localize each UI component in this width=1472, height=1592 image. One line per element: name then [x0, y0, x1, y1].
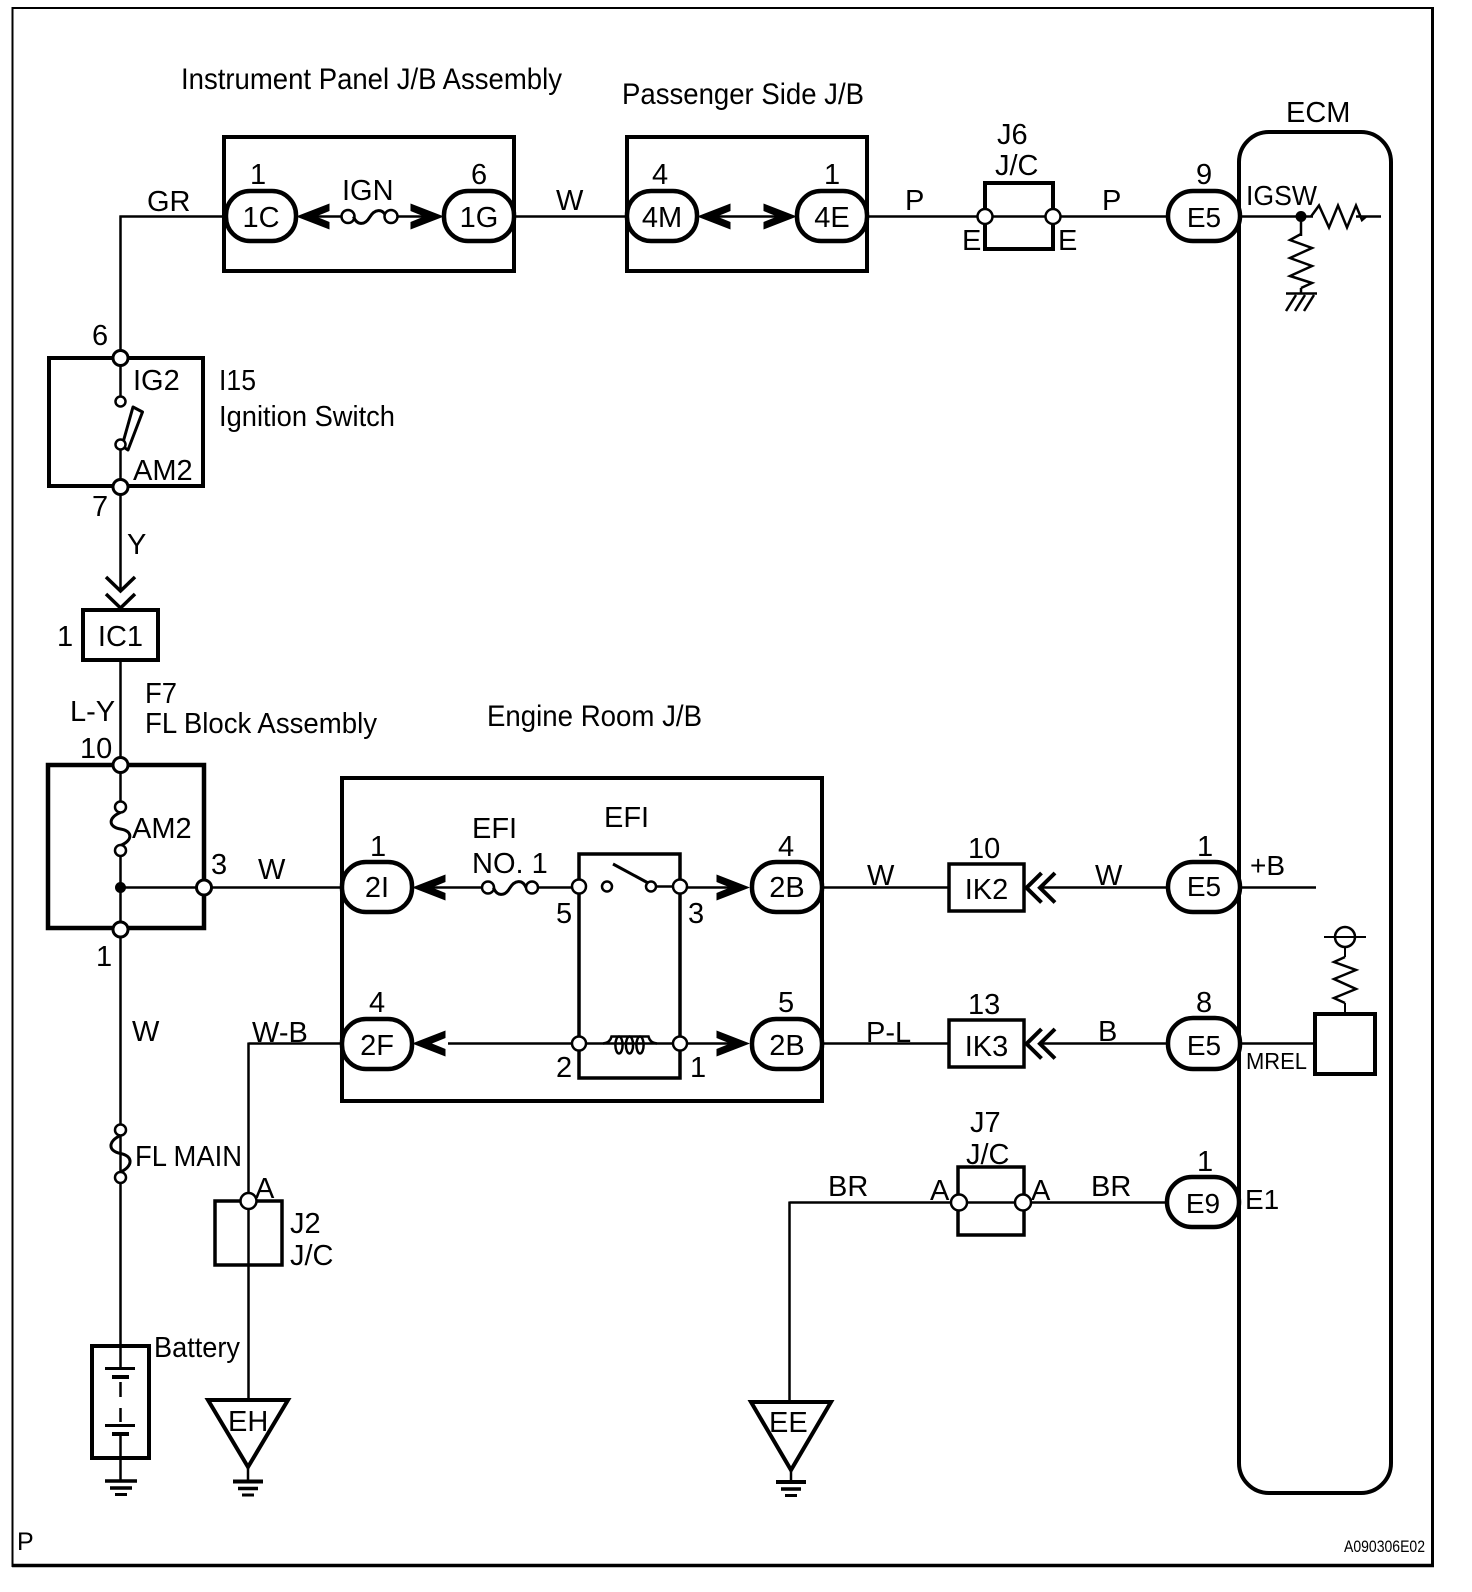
wire relay to arrow [687, 1042, 731, 1045]
svg-text:J2: J2 [290, 1208, 321, 1240]
Engine Room J/B box [342, 778, 822, 1101]
connector arrow (right, before 2B top) [717, 875, 751, 901]
svg-text:NO. 1: NO. 1 [472, 848, 548, 880]
svg-text:AM2: AM2 [132, 813, 192, 845]
svg-text:2: 2 [556, 1052, 572, 1084]
connector 2B (top) [752, 862, 822, 912]
relay switch contact right [646, 882, 656, 892]
wire L-Y: IC1 to FL block [119, 660, 122, 765]
junction node on IGSW wire [1296, 211, 1307, 222]
svg-text:E5: E5 [1187, 1030, 1221, 1061]
relay switch blade [613, 864, 650, 884]
wire +B inside ECM [1240, 886, 1316, 889]
battery box [92, 1346, 149, 1458]
wire fuse to junction [119, 856, 122, 929]
svg-text:1: 1 [1197, 1146, 1213, 1178]
svg-text:13: 13 [968, 989, 1000, 1021]
connector 2F [342, 1019, 412, 1069]
svg-text:P: P [17, 1528, 34, 1556]
svg-text:5: 5 [556, 898, 572, 930]
svg-text:EFI: EFI [472, 813, 517, 845]
relay pin 1 terminal [673, 1037, 687, 1051]
svg-text:L-Y: L-Y [70, 696, 115, 728]
wire fuse to relay pin 5 [538, 886, 580, 889]
svg-text:EFI: EFI [604, 802, 649, 834]
svg-text:IG2: IG2 [133, 365, 180, 397]
connector arrow (left, after 2F) [412, 1031, 446, 1057]
svg-text:J/C: J/C [290, 1240, 334, 1272]
terminal circle pin 1 (FL block bottom) [113, 922, 128, 937]
svg-text:1: 1 [1197, 831, 1213, 863]
switch contact upper [116, 397, 126, 407]
svg-text:MREL: MREL [1246, 1048, 1307, 1074]
svg-text:5: 5 [778, 987, 794, 1019]
wire junction to pin 3 [121, 886, 205, 889]
svg-text:IK2: IK2 [965, 874, 1009, 906]
svg-text:7: 7 [92, 491, 108, 523]
resistor (vertical, to B+) [1334, 957, 1356, 1003]
inline connector chevrons (double V) [106, 577, 135, 608]
svg-text:6: 6 [92, 320, 108, 352]
svg-text:8: 8 [1196, 987, 1212, 1019]
inline chevrons after IK3 [1027, 1029, 1056, 1059]
svg-text:BR: BR [1091, 1171, 1131, 1203]
ECM box [1239, 132, 1391, 1493]
svg-text:I15: I15 [219, 365, 256, 397]
connector 2I [342, 862, 412, 912]
junction connector J7 J/C box [951, 1167, 1031, 1235]
svg-text:A090306E02: A090306E02 [1344, 1537, 1425, 1556]
resistor (horizontal, IGSW pull) [1311, 206, 1381, 228]
svg-text:J7: J7 [970, 1107, 1001, 1139]
terminal circle node (B+) [1324, 927, 1366, 947]
terminal circle pin 3 [197, 880, 212, 895]
wire P-L: 2B bottom to IK3 [822, 1042, 949, 1045]
junction connector J6 J/C [978, 119, 1061, 249]
connector E9 [1167, 1177, 1239, 1227]
svg-text:3: 3 [211, 849, 227, 881]
wire W-B to 2F [249, 1043, 345, 1195]
svg-text:1: 1 [690, 1052, 706, 1084]
wire between arrows [717, 215, 777, 218]
connector arrow (right, before 2B bottom) [717, 1031, 751, 1057]
svg-text:1: 1 [824, 159, 840, 191]
connector arrow (right, before 4E) [764, 204, 798, 230]
svg-text:E: E [1058, 225, 1077, 257]
connector IK3 box [949, 1020, 1024, 1067]
svg-text:+B: +B [1250, 850, 1285, 881]
svg-text:4E: 4E [814, 202, 849, 234]
resistor (vertical, to ground) [1290, 217, 1312, 295]
connector 1G [444, 191, 514, 241]
Passenger Side J/B box [627, 137, 867, 271]
svg-text:1: 1 [96, 941, 112, 973]
svg-text:Ignition Switch: Ignition Switch [219, 401, 395, 433]
svg-text:E9: E9 [1186, 1188, 1220, 1219]
svg-text:W: W [867, 860, 895, 892]
wire P: J6 to E5 [1060, 215, 1169, 218]
svg-text:IGSW: IGSW [1246, 180, 1318, 211]
connector IC1 box [83, 610, 158, 660]
wire AM2 contact to pin 7 [119, 450, 122, 488]
wire arrow to relay pin 2 [448, 1042, 580, 1045]
svg-text:GR: GR [147, 186, 191, 218]
connector arrow (left, after 4M) [697, 204, 731, 230]
wire B: chevrons to E5 pin 8 [1041, 1042, 1169, 1045]
component I15 Ignition Switch box [49, 358, 203, 486]
svg-text:W: W [1095, 860, 1123, 892]
svg-text:4: 4 [369, 987, 385, 1019]
main relay driver block (inside ECM) [1315, 1014, 1375, 1074]
wire W: 1G to 4M [514, 215, 627, 218]
svg-text:ECM: ECM [1286, 97, 1350, 129]
wire relay to arrow [687, 886, 731, 889]
svg-text:P-L: P-L [866, 1017, 911, 1049]
svg-text:4: 4 [652, 159, 668, 191]
svg-text:1: 1 [370, 831, 386, 863]
wire pin10 to fuse AM2 [119, 772, 122, 802]
svg-text:Y: Y [127, 529, 146, 561]
Instrument Panel J/B box [224, 137, 514, 271]
svg-text:9: 9 [1196, 159, 1212, 191]
svg-text:A: A [930, 1175, 950, 1207]
junction node [115, 882, 126, 893]
svg-text:E5: E5 [1187, 871, 1221, 902]
relay switch contact left [602, 882, 612, 892]
svg-text:E5: E5 [1187, 202, 1221, 233]
wire IGSW inside ECM [1240, 215, 1313, 218]
svg-text:E: E [962, 225, 981, 257]
wire block to resistor [1344, 1003, 1346, 1014]
svg-text:4: 4 [778, 831, 794, 863]
wire Y: pin7 down to IC1 [119, 494, 122, 591]
svg-text:Battery: Battery [154, 1332, 240, 1364]
svg-text:W: W [258, 854, 286, 886]
svg-text:EE: EE [769, 1407, 808, 1439]
fuse IGN [315, 210, 425, 223]
relay pin 5 terminal [572, 880, 586, 894]
svg-text:3: 3 [688, 898, 704, 930]
svg-text:2B: 2B [769, 872, 804, 904]
svg-text:W-B: W-B [252, 1017, 308, 1049]
wire J2 to EH [247, 1209, 250, 1400]
svg-text:IGN: IGN [342, 175, 394, 207]
relay pin 3 terminal [673, 880, 687, 894]
wire contact to relay pin 3 [656, 885, 680, 888]
wire GR: left vertical to 1C [120, 216, 228, 359]
chassis ground (inside ECM) [1286, 294, 1317, 312]
ground EH [208, 1400, 288, 1495]
inline chevrons after IK2 [1027, 873, 1056, 903]
svg-text:EH: EH [228, 1406, 268, 1438]
terminal circle pin 6 [113, 351, 128, 366]
svg-text:2B: 2B [769, 1030, 804, 1062]
svg-text:1: 1 [250, 159, 266, 191]
svg-text:P: P [1102, 185, 1121, 217]
terminal circle pin 10 [113, 758, 128, 773]
connector E5 pin 9 [1168, 191, 1240, 241]
battery cell symbol [105, 1346, 135, 1480]
ground EE [751, 1402, 831, 1496]
svg-text:2F: 2F [360, 1030, 394, 1062]
relay EFI box [579, 854, 680, 1078]
connector E5 pin 8 [1168, 1018, 1240, 1069]
wire BR: J7 to E9 [1031, 1201, 1169, 1204]
wire resistor to terminal circle [1344, 947, 1346, 957]
svg-text:AM2: AM2 [133, 455, 193, 487]
svg-text:E1: E1 [1245, 1184, 1279, 1215]
svg-text:10: 10 [80, 733, 112, 765]
svg-text:W: W [132, 1016, 160, 1048]
relay pin 2 terminal [572, 1037, 586, 1051]
wire to fuse EFI NO. 1 [432, 886, 482, 889]
wire P: 4E to J6 [867, 215, 985, 218]
svg-text:P: P [905, 185, 924, 217]
terminal circle pin 7 [113, 480, 128, 495]
wire MREL inside ECM [1240, 1042, 1315, 1045]
svg-text:10: 10 [968, 833, 1000, 865]
svg-text:F7: F7 [145, 678, 177, 710]
switch lever [122, 407, 143, 450]
svg-text:BR: BR [828, 1171, 868, 1203]
svg-text:IC1: IC1 [98, 621, 143, 653]
connector 4M [627, 191, 697, 241]
wire IG2 to switch contact [119, 365, 122, 397]
connector arrow (left, after 2I) [412, 875, 446, 901]
svg-text:6: 6 [471, 159, 487, 191]
svg-text:Passenger Side J/B: Passenger Side J/B [622, 78, 864, 111]
svg-text:J/C: J/C [995, 150, 1039, 182]
junction connector J2 J/C box [215, 1193, 282, 1265]
svg-text:W: W [556, 185, 584, 217]
wire W: FL block to battery [119, 937, 122, 1348]
wire W: chevrons to E5 pin 1 [1041, 886, 1169, 889]
svg-text:B: B [1098, 1016, 1117, 1048]
wire BR: EE riser to J7 [790, 1202, 960, 1403]
wire W: pin3 to 2I [211, 886, 344, 889]
svg-text:FL MAIN: FL MAIN [135, 1141, 242, 1173]
connector 2B (bottom) [752, 1019, 822, 1069]
svg-text:Instrument Panel J/B Assembly: Instrument Panel J/B Assembly [181, 63, 562, 96]
connector 4E [797, 191, 867, 241]
svg-text:FL Block Assembly: FL Block Assembly [145, 708, 377, 740]
svg-text:J6: J6 [997, 119, 1028, 151]
svg-text:1C: 1C [242, 202, 279, 234]
fuse EFI NO. 1 [482, 882, 538, 895]
relay coil [586, 1037, 680, 1054]
svg-text:IK3: IK3 [965, 1031, 1009, 1063]
connector IK2 box [949, 864, 1024, 911]
svg-text:Engine Room J/B: Engine Room J/B [487, 700, 702, 733]
connector 1C [226, 191, 296, 241]
svg-text:1: 1 [57, 621, 73, 653]
connector arrow (right, before 1G) [411, 204, 445, 230]
connector arrow (left, after 1C) [296, 204, 330, 230]
svg-text:1G: 1G [460, 202, 499, 234]
component F7 FL Block Assembly box [48, 765, 204, 928]
wire W: 2B top to IK2 [822, 886, 949, 889]
svg-text:4M: 4M [642, 202, 682, 234]
fuse AM2 [111, 802, 130, 857]
ground (battery) [105, 1481, 137, 1495]
svg-text:2I: 2I [365, 872, 389, 904]
switch contact lower [116, 440, 126, 450]
fuse FL MAIN [111, 1125, 130, 1184]
connector E5 pin 1 [1168, 862, 1240, 912]
